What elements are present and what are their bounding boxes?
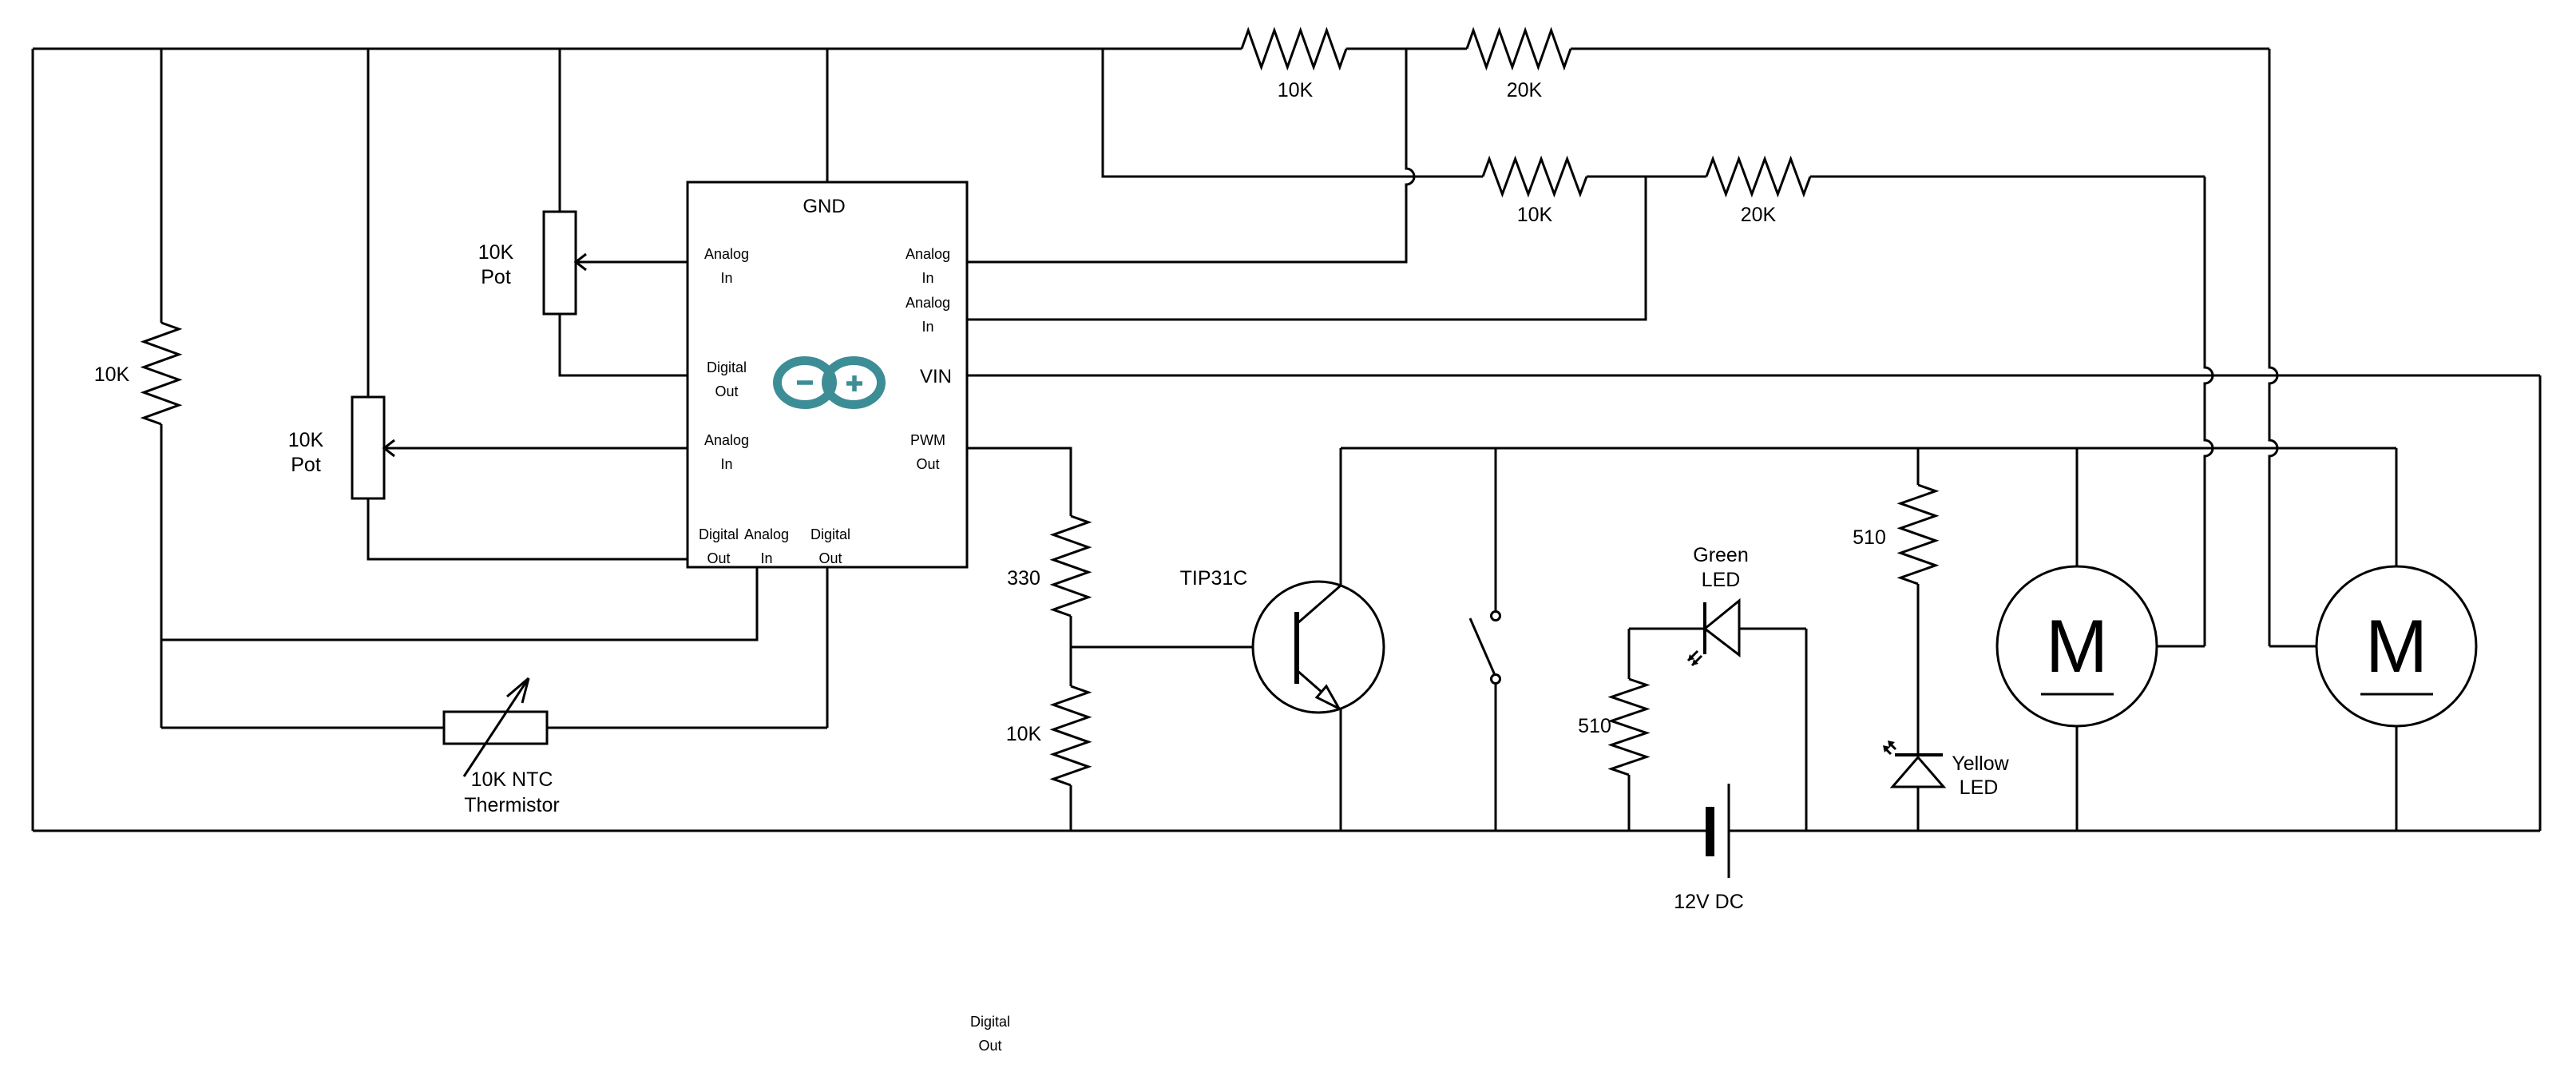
wire: motor M1 bottom to bus: [2076, 726, 2079, 831]
resistor 10K (top row): [1242, 30, 1346, 67]
svg-text:In: In: [921, 270, 933, 286]
svg-text:In: In: [720, 270, 732, 286]
wire: motor M1 right terminal: [2157, 645, 2205, 648]
potentiometer RV2 10K Pot: [352, 397, 384, 498]
wire: pot2 wiper from Arduino Analog In: [386, 447, 688, 450]
wire: pot2 bottom to Arduino Digital Out (lower-left): [368, 498, 688, 559]
svg-text:20K: 20K: [1741, 204, 1777, 226]
svg-text:In: In: [720, 456, 732, 472]
motor M1: [1997, 566, 2157, 726]
svg-text:20K: 20K: [1507, 79, 1543, 101]
svg-text:10K: 10K: [94, 363, 130, 386]
wire: top bus to pot2: [367, 49, 370, 397]
potentiometer RV1 10K Pot: [544, 212, 576, 314]
svg-text:330: 330: [1007, 567, 1040, 590]
svg-text:Pot: Pot: [481, 266, 511, 288]
resistor R1 10K (left): [144, 323, 179, 424]
svg-text:PWM: PWM: [910, 432, 945, 448]
svg-text:Pot: Pot: [291, 454, 321, 476]
svg-text:10K: 10K: [1006, 723, 1042, 745]
wire: 510 to bottom bus: [1628, 775, 1631, 831]
resistor 330: [1053, 516, 1088, 616]
svg-text:Thermistor: Thermistor: [464, 794, 559, 816]
wire: feed from top bus to second row: [1103, 49, 1483, 177]
svg-text:510: 510: [1578, 715, 1611, 737]
wire: GND feed from top bus to Arduino: [826, 49, 829, 182]
right border wire VIN riser: [2539, 375, 2542, 831]
wire: base wire to transistor: [1071, 646, 1295, 649]
wire: pot1 bottom to Arduino Digital Out pin: [560, 314, 688, 375]
svg-text:LED: LED: [1960, 776, 1999, 799]
LED D1 Green: [1703, 602, 1706, 654]
svg-text:VIN: VIN: [920, 366, 952, 387]
svg-text:Digital: Digital: [707, 359, 747, 375]
wire: node to Arduino Analog In 2: [967, 177, 1646, 320]
svg-text:Digital: Digital: [699, 526, 739, 542]
resistor 10K (base pulldown): [1053, 686, 1088, 785]
bottom bus wire (battery negative side): [33, 830, 1706, 832]
wire: collector up to bus: [1340, 448, 1342, 586]
wire: node between top resistors down to Analog In 1 (hops second row): [967, 49, 1414, 262]
wire: thermistor row left: [161, 727, 444, 729]
Arduino logo: [778, 361, 882, 405]
collector bus wire: [1341, 447, 2396, 450]
wire: right branch down to bus: [1805, 629, 1808, 831]
svg-text:Analog: Analog: [704, 432, 749, 448]
svg-text:Digital: Digital: [810, 526, 850, 542]
transistor Q1 TIP31C: [1253, 582, 1384, 713]
svg-text:Analog: Analog: [906, 246, 950, 262]
wire: emitter to bottom bus: [1340, 709, 1342, 831]
wire: left branch to 510: [1628, 629, 1631, 679]
svg-text:12V DC: 12V DC: [1674, 891, 1744, 913]
svg-text:M: M: [2365, 604, 2427, 688]
wire: 510 down to yellow LED: [1917, 584, 1920, 755]
motor M2: [2316, 566, 2476, 726]
wire: second-row 20K output down to motor M1 (hops VIN and bus): [2205, 177, 2213, 646]
LED D2 Yellow: [1895, 753, 1943, 756]
svg-text:GND: GND: [803, 196, 845, 217]
svg-text:10K: 10K: [1517, 204, 1553, 226]
svg-text:10K: 10K: [288, 429, 324, 451]
wire: top bus to left 10K resistor: [161, 49, 163, 323]
svg-text:In: In: [921, 319, 933, 335]
svg-text:In: In: [760, 550, 772, 566]
svg-text:M: M: [2046, 604, 2108, 688]
switch S1: [1495, 448, 1497, 611]
svg-text:10K: 10K: [478, 241, 514, 264]
svg-text:LED: LED: [1702, 569, 1741, 591]
svg-text:Out: Out: [916, 456, 939, 472]
svg-text:510: 510: [1853, 526, 1886, 549]
svg-text:Analog: Analog: [744, 526, 789, 542]
ground top bus wire: [33, 48, 2269, 50]
wire: motor M2 left terminal: [2269, 645, 2316, 648]
battery BT1 12V DC: [1706, 807, 1714, 856]
wire: top-row 20K output down to motor M2 (hops VIN and bus): [2269, 49, 2277, 646]
wire: LED to right branch: [1739, 628, 1806, 630]
svg-text:Out: Out: [707, 550, 730, 566]
wire: thermistor row right: [547, 727, 827, 729]
wire: second row middle segment: [1587, 176, 1706, 178]
resistor 20K (top row): [1467, 30, 1571, 67]
Arduino U1: [688, 182, 967, 567]
svg-text:Analog: Analog: [704, 246, 749, 262]
VIN wire: [967, 375, 2540, 377]
wire: second row right segment: [1810, 176, 2205, 178]
svg-text:Digital: Digital: [970, 1014, 1010, 1030]
wire: pot1 wiper from Arduino Analog In: [577, 261, 688, 264]
resistor 510 (yellow LED): [1900, 485, 1936, 584]
wire: bus corner down to motor M2: [2396, 448, 2398, 566]
wire: yellow LED to bottom bus: [1917, 787, 1920, 831]
resistor 10K (second row): [1483, 159, 1587, 194]
wire: green LED loop top left: [1629, 628, 1705, 630]
wire: up to Arduino bottom Digital Out pin: [826, 567, 829, 728]
svg-text:10K NTC: 10K NTC: [471, 768, 553, 791]
bottom bus wire (battery positive side): [1729, 830, 2540, 832]
svg-text:Out: Out: [978, 1038, 1001, 1054]
svg-text:Yellow: Yellow: [1952, 752, 2009, 775]
wire: motor M2 bottom to bus: [2396, 726, 2398, 831]
svg-text:Out: Out: [818, 550, 842, 566]
resistor 510 (green LED): [1611, 679, 1647, 775]
svg-text:TIP31C: TIP31C: [1180, 567, 1248, 590]
svg-text:Out: Out: [715, 383, 738, 399]
svg-text:Green: Green: [1693, 544, 1748, 566]
svg-text:10K: 10K: [1278, 79, 1314, 101]
wire: between 330 and 10K: [1070, 616, 1072, 686]
wire: bus down to 510 (yellow): [1917, 448, 1920, 485]
wire: Arduino bottom Analog In pin to left rail: [161, 567, 757, 640]
wire: bus down to motor M1: [2076, 448, 2079, 566]
wire: below left 10K down to thermistor row: [161, 424, 163, 728]
left border wire: [32, 49, 34, 831]
wire: top bus to pot1: [559, 49, 561, 212]
resistor 20K (second row): [1706, 159, 1810, 194]
wire: 10K to bottom bus: [1070, 785, 1072, 831]
svg-text:Analog: Analog: [906, 295, 950, 311]
wire: PWM Out to 330 column: [967, 448, 1071, 516]
thermistor RT1 10K NTC: [444, 712, 547, 744]
